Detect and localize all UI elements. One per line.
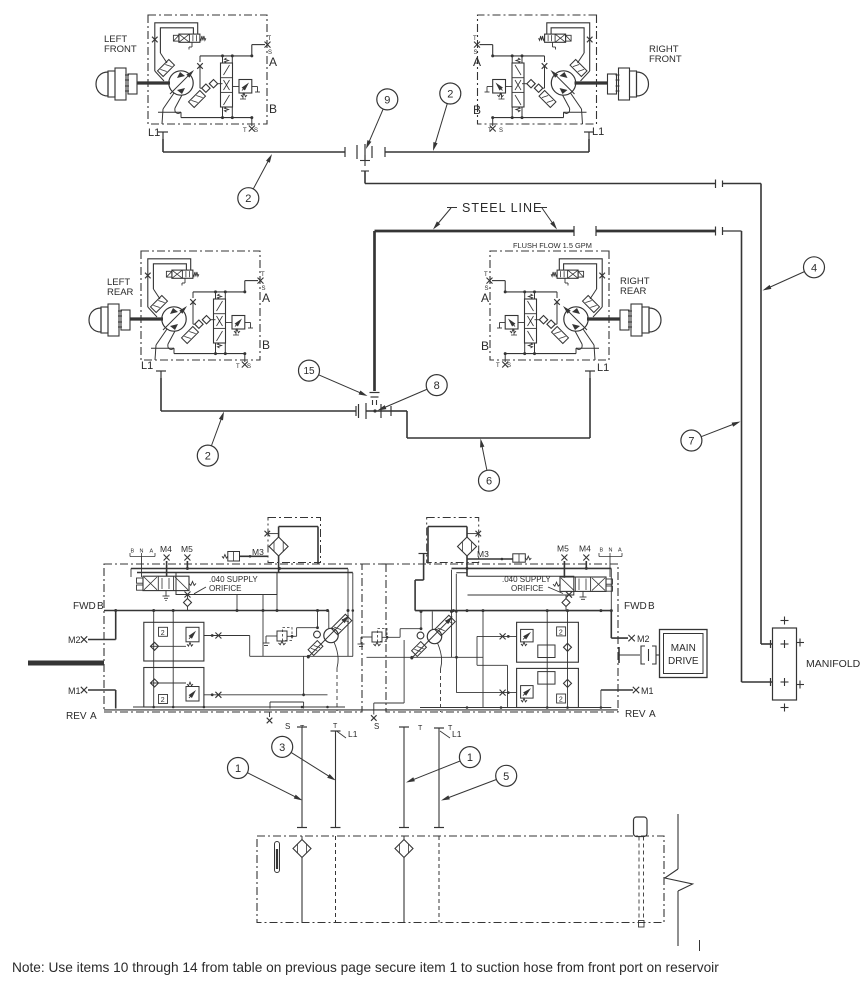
- svg-text:A: A: [269, 55, 277, 69]
- svg-text:2: 2: [205, 451, 211, 463]
- svg-text:15: 15: [303, 366, 315, 377]
- svg-text:M3: M3: [477, 549, 489, 559]
- svg-text:L1: L1: [348, 729, 358, 739]
- svg-text:REAR: REAR: [107, 287, 134, 298]
- svg-text:ORIFICE: ORIFICE: [511, 584, 543, 593]
- svg-text:FRONT: FRONT: [649, 54, 682, 65]
- svg-text:Note: Use items 10 through 14: Note: Use items 10 through 14 from table…: [12, 960, 719, 975]
- svg-text:2: 2: [447, 88, 453, 100]
- svg-text:1: 1: [467, 752, 473, 764]
- svg-text:FLUSH FLOW 1.5 GPM: FLUSH FLOW 1.5 GPM: [513, 241, 592, 250]
- svg-text:M4: M4: [579, 544, 591, 554]
- svg-text:L1: L1: [141, 360, 153, 372]
- svg-text:9: 9: [384, 94, 390, 106]
- svg-text:FRONT: FRONT: [104, 44, 137, 55]
- svg-text:S: S: [507, 363, 511, 369]
- svg-text:2: 2: [161, 697, 165, 704]
- svg-text:S: S: [285, 722, 290, 731]
- svg-text:REV: REV: [625, 709, 646, 720]
- svg-text:B: B: [648, 601, 655, 612]
- svg-text:T: T: [418, 725, 423, 732]
- svg-text:B: B: [269, 102, 277, 116]
- svg-text:S: S: [268, 50, 272, 56]
- svg-text:N: N: [609, 548, 613, 554]
- svg-text:T: T: [236, 364, 240, 370]
- svg-text:FWD: FWD: [73, 601, 96, 612]
- svg-text:8: 8: [434, 380, 440, 392]
- svg-text:.040 SUPPLY: .040 SUPPLY: [502, 575, 551, 584]
- svg-text:M4: M4: [160, 544, 172, 554]
- svg-text:REV: REV: [66, 711, 87, 722]
- svg-text:T: T: [268, 36, 272, 42]
- svg-text:A: A: [618, 548, 622, 554]
- svg-text:B: B: [262, 338, 270, 352]
- svg-text:B: B: [97, 601, 104, 612]
- svg-text:M2: M2: [637, 634, 650, 644]
- svg-text:S: S: [474, 50, 478, 56]
- svg-text:B: B: [473, 103, 481, 117]
- svg-text:FWD: FWD: [624, 601, 647, 612]
- svg-text:3: 3: [279, 742, 285, 754]
- svg-text:A: A: [481, 291, 489, 305]
- svg-text:.040 SUPPLY: .040 SUPPLY: [209, 575, 258, 584]
- svg-text:S: S: [262, 286, 266, 292]
- svg-text:M2: M2: [68, 635, 81, 645]
- svg-text:S: S: [485, 286, 489, 292]
- svg-text:A: A: [473, 55, 481, 69]
- svg-text:A: A: [262, 291, 270, 305]
- svg-text:M5: M5: [181, 544, 193, 554]
- svg-text:A: A: [649, 709, 656, 720]
- svg-text:S: S: [499, 128, 503, 134]
- svg-text:6: 6: [486, 476, 492, 488]
- svg-text:T: T: [496, 363, 500, 369]
- svg-text:S: S: [247, 364, 251, 370]
- svg-text:S: S: [254, 128, 258, 134]
- svg-text:MAIN: MAIN: [671, 643, 696, 654]
- svg-text:M3: M3: [252, 547, 264, 557]
- svg-text:2: 2: [245, 193, 251, 205]
- svg-text:7: 7: [688, 435, 694, 447]
- svg-text:2: 2: [559, 629, 563, 636]
- svg-text:S: S: [374, 722, 379, 731]
- svg-text:T: T: [261, 272, 265, 278]
- svg-text:T: T: [473, 36, 477, 42]
- svg-text:M1: M1: [68, 686, 81, 696]
- svg-text:L1: L1: [148, 127, 160, 139]
- svg-text:L1: L1: [597, 362, 609, 374]
- svg-text:M5: M5: [557, 544, 569, 554]
- svg-text:B: B: [600, 548, 604, 554]
- svg-text:M1: M1: [641, 686, 654, 696]
- svg-text:T: T: [488, 128, 492, 134]
- svg-text:REAR: REAR: [620, 286, 647, 297]
- svg-text:ORIFICE: ORIFICE: [209, 584, 241, 593]
- svg-text:B: B: [481, 339, 489, 353]
- svg-text:5: 5: [503, 771, 509, 783]
- svg-text:T: T: [333, 723, 338, 730]
- svg-text:1: 1: [235, 763, 241, 775]
- svg-text:L1: L1: [452, 729, 462, 739]
- svg-text:DRIVE: DRIVE: [668, 656, 699, 667]
- svg-text:2: 2: [161, 630, 165, 637]
- svg-text:T: T: [484, 272, 488, 278]
- svg-text:MANIFOLD: MANIFOLD: [806, 658, 861, 670]
- svg-text:4: 4: [811, 262, 817, 274]
- svg-text:2: 2: [559, 697, 563, 704]
- svg-text:A: A: [150, 549, 154, 555]
- svg-text:A: A: [90, 711, 97, 722]
- svg-text:B: B: [131, 549, 135, 555]
- svg-text:STEEL LINE: STEEL LINE: [462, 201, 542, 215]
- svg-text:T: T: [243, 128, 247, 134]
